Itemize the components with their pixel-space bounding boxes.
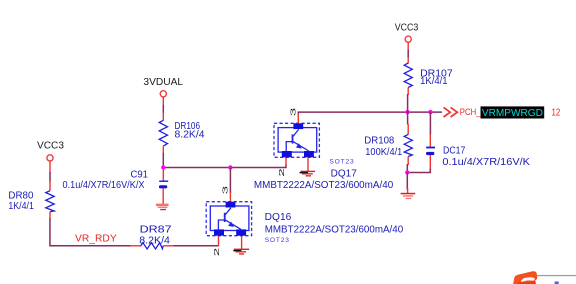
svg-text:SOT23: SOT23 [265,237,290,244]
label DR107 value 1K/4/1 [420,68,453,87]
wire rail to DQ17 pin2 [163,165,286,168]
svg-text:3: 3 [288,108,297,117]
svg-text:VRMPWRGD: VRMPWRGD [482,108,543,119]
pin stub DQ16 pin3 [229,192,231,202]
svg-text:DQ16: DQ16 [265,212,292,223]
pin stub DC17 bottom [429,155,431,170]
net label box VRMPWRGD [481,106,545,118]
svg-text:8.2K/4: 8.2K/4 [175,130,206,141]
junction node (DQ16 collector) [228,165,232,169]
transistor DQ16 [206,202,251,236]
svg-text:1K/4/1: 1K/4/1 [8,201,34,212]
wire DC17 top [429,112,431,134]
svg-text:DR80: DR80 [8,191,34,202]
power symbol VCC3 (left) [37,141,65,173]
wire DR108 to bottom rail [406,164,408,173]
resistor DR80 [46,191,54,212]
watermark letter stub (blue) [555,282,559,284]
pin stub DR108 bottom [407,157,409,166]
svg-text:0.1u/4/X7R/16V/K/X: 0.1u/4/X7R/16V/K/X [63,180,145,191]
resistor DR106 [159,120,167,146]
ground (C91) [156,204,169,211]
pin stub DC17 top [429,134,431,147]
wire top rail PCH_VRMPWRGD [298,112,442,114]
pin stub C91 top [162,168,164,181]
power symbol 3VDUAL [143,77,183,106]
label DR80 value 1K/4/1 [8,191,34,213]
resistor DR107 [404,63,412,88]
svg-text:VR_RDY: VR_RDY [75,234,117,245]
svg-text:PCH_: PCH_ [460,107,481,118]
svg-text:1K/4/1: 1K/4/1 [420,76,448,87]
label DR106 value 8.2K/4 [175,121,206,140]
wire net VR_RDY [50,218,131,246]
label C91 value [63,169,149,191]
pin stub DQ17 pin2 [285,156,287,165]
svg-text:VCC3: VCC3 [37,141,65,152]
svg-text:3VDUAL: 3VDUAL [143,77,183,88]
wire DQ16 collector to rail [229,168,231,194]
junction node (ground) [405,170,409,174]
ground (DQ17) [300,171,316,177]
pin stub DR80 bottom [49,212,51,219]
capacitor C91 [159,181,168,189]
pin stub DQ17 pin3 [297,113,299,124]
pin stub DR80 top [49,181,51,191]
svg-text:MMBT2222A/SOT23/600mA/40: MMBT2222A/SOT23/600mA/40 [254,180,394,191]
pin stub DR106 top [162,113,164,121]
label DQ16 [265,212,404,244]
svg-text:SOT23: SOT23 [329,158,354,165]
wire junction to ground [406,173,408,191]
pin stub DR107 bottom [407,88,409,96]
watermark rule line [537,275,576,276]
svg-text:C91: C91 [131,169,149,180]
resistor DR87 [141,243,163,249]
pin stub DR87 right [163,245,174,247]
label DR108 value 100K/4/1 [364,136,402,158]
watermark logo (orange) [513,271,537,284]
capacitor DC17 [426,147,435,155]
wire VCC3 to DR80 [49,172,51,182]
resistor DR108 [404,134,412,156]
svg-text:12: 12 [552,108,561,119]
wire DR87 to DQ16 pin2 [174,245,219,247]
label DQ17 [254,158,394,191]
label DC17 value [442,146,530,168]
junction node (DR107/DR108) [405,110,409,114]
junction node (DC17 top) [428,110,432,114]
pin stub DR87 left [130,245,141,247]
pin stub DQ16 pin2 [218,236,220,246]
ground (DR108/DC17) [401,193,416,199]
pin stub DQ16 emitter [241,236,243,249]
wire DR107 to rail [407,94,409,112]
svg-text:2: 2 [212,248,221,257]
wire rail to DR108 [407,112,409,124]
svg-text:0.1u/4/X7R/16V/K: 0.1u/4/X7R/16V/K [442,157,530,168]
svg-text:100K/4/1: 100K/4/1 [365,147,402,158]
transistor DQ17 [274,123,319,157]
svg-text:DC17: DC17 [443,146,465,157]
svg-text:3: 3 [221,186,230,195]
power symbol VCC3 (right) [395,22,419,51]
off-page connector chevrons [444,107,458,117]
pin stub DR108 top [407,124,409,135]
svg-text:VCC3: VCC3 [395,22,419,33]
junction node (C91/3VDUAL) [161,165,165,169]
svg-text:8.2K/4: 8.2K/4 [139,236,170,247]
pin stub DR107 top [407,57,409,64]
wire VCC3 to DR107 [407,50,409,58]
pin stub ground tip [407,188,409,194]
wire DR106 to rail [162,153,164,168]
pin stub DR106 bottom [162,146,164,154]
svg-text:DR108: DR108 [364,136,395,147]
svg-text:DR87: DR87 [140,225,172,236]
svg-text:2: 2 [277,168,286,177]
wire DC17 bottom to ground rail [407,169,430,173]
pin stub C91 bottom [162,188,164,204]
wire 3VDUAL to DR106 [162,105,164,113]
label DR87 value 8.2K/4 [139,225,171,247]
svg-text:DQ17: DQ17 [331,169,357,180]
svg-text:MMBT2222A/SOT23/600mA/40: MMBT2222A/SOT23/600mA/40 [265,224,404,235]
pin stub DQ17 emitter [307,158,309,171]
ground (DQ16) [233,249,249,255]
